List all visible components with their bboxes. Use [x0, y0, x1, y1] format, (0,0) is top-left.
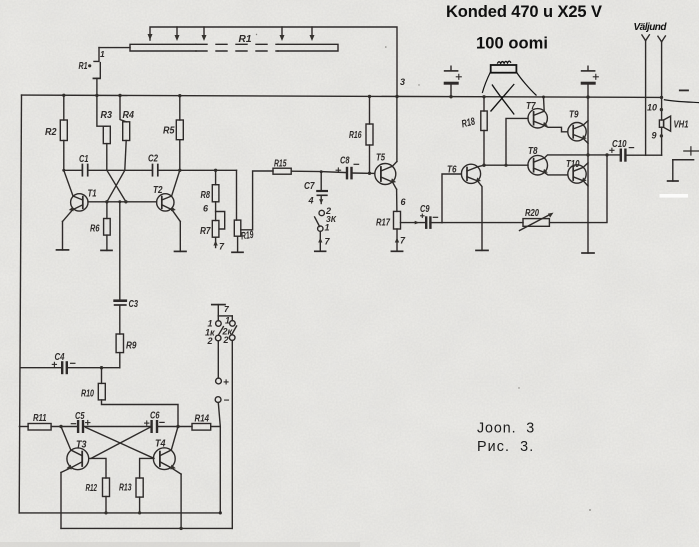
wire T4 base to R13 — [140, 458, 154, 478]
ground tick T2 emitter — [175, 250, 187, 252]
svg-text:R8: R8 — [201, 189, 211, 201]
svg-text:1: 1 — [225, 316, 230, 326]
svg-text:C2: C2 — [148, 153, 158, 165]
bottom rail 1 — [19, 512, 220, 514]
wire T10 collector to output node — [583, 163, 588, 167]
resistor R4 — [120, 96, 130, 171]
svg-text:R4: R4 — [123, 109, 135, 121]
output terminal right prong — [658, 36, 666, 155]
wire T7 emitter to T9 base — [544, 125, 568, 131]
capacitor C5 — [71, 420, 151, 431]
wire T8 emitter to T10 base — [544, 172, 568, 175]
svg-text:R10: R10 — [81, 388, 94, 400]
white-out correction mark — [660, 194, 689, 198]
bottom rail 2 (emitters) — [61, 527, 232, 529]
node output rail — [586, 153, 589, 156]
node R16 bottom — [368, 172, 371, 175]
capacitor C10 — [610, 148, 662, 161]
node dots on bus — [62, 94, 663, 100]
svg-text:R13: R13 — [119, 482, 132, 494]
wire to T8 base with branch to T7 base — [484, 118, 528, 165]
wire T5 emitter to R17 — [392, 182, 397, 212]
wire T3 base to R12 — [89, 458, 106, 478]
bracket over R1 with arrows and drop to node 3 — [148, 27, 398, 96]
node T2 collector — [178, 169, 181, 172]
node R20 tap — [605, 153, 608, 156]
bottom scan smudge — [0, 542, 360, 547]
wire T7 collector to bus — [543, 97, 546, 111]
resistor R20 (feedback trimmer) — [520, 213, 554, 231]
transistor T5 — [375, 164, 396, 185]
svg-text:Joon. 3: Joon. 3 — [477, 421, 535, 437]
ground tick T1 emitter — [57, 249, 69, 251]
node T7 collector at bus — [542, 96, 545, 99]
sync line from T-bases down to C3 — [119, 202, 121, 300]
svg-text:C1: C1 — [79, 153, 89, 165]
capacitor C3 — [115, 301, 126, 334]
wire output node down to R20 — [550, 155, 607, 223]
resistor R18 — [481, 97, 487, 165]
svg-text:4: 4 — [308, 196, 314, 206]
node T4 emitter — [179, 527, 182, 530]
node B (T2 base) — [124, 200, 127, 203]
svg-text:C5: C5 — [75, 410, 85, 422]
svg-text:T2: T2 — [153, 184, 163, 196]
wire T8 collector to output node — [544, 155, 588, 158]
wire T9 emitter to output node — [583, 139, 588, 144]
switch 3K contact 1 — [318, 226, 323, 231]
svg-text:2: 2 — [223, 335, 229, 345]
connector pin 2 left — [215, 335, 221, 341]
node T3 collector — [59, 425, 62, 428]
plus mark right edge — [684, 147, 699, 155]
resistor R2 — [60, 95, 67, 170]
svg-text:R2: R2 — [45, 126, 57, 138]
svg-text:R1: R1 — [79, 60, 88, 72]
wire T2 collector to R19 — [236, 170, 238, 220]
annotation resistor 100 oomi drawing — [482, 61, 536, 95]
resistor R12 — [103, 478, 110, 513]
capacitor C7 — [317, 172, 327, 204]
wire switch to ground — [318, 232, 322, 252]
svg-text:Konded 470 u X25 V: Konded 470 u X25 V — [446, 3, 602, 21]
svg-text:R3: R3 — [101, 109, 113, 121]
multivibrator 2 supply wire — [19, 426, 28, 428]
resistor R15 — [273, 168, 347, 174]
resistor R9 — [116, 334, 123, 368]
switch on R1 (power switch) — [88, 48, 100, 96]
cross-coupling wires of second multivibrator — [86, 427, 154, 458]
loudspeaker VH1 — [659, 116, 670, 131]
svg-text:R17: R17 — [376, 217, 391, 229]
resistor R11 — [28, 424, 78, 431]
ground tick R19 — [232, 251, 243, 253]
node T1 collector — [62, 169, 65, 172]
svg-text:R6: R6 — [90, 223, 100, 235]
ground tick switch — [315, 250, 326, 252]
node R13 ground — [138, 511, 141, 514]
node R8 top — [214, 169, 217, 172]
svg-text:C4: C4 — [55, 351, 65, 363]
connector chassis bar with pin 7 — [212, 305, 233, 321]
svg-text:C3: C3 — [129, 298, 139, 310]
svg-text:R19: R19 — [240, 229, 254, 243]
node C7 tap — [320, 170, 323, 173]
wire T6 emitter to ground — [478, 181, 483, 251]
transistor T10 — [568, 165, 587, 183]
svg-text:C6: C6 — [150, 410, 160, 422]
electrolytic capacitor on bus (right 470u) — [582, 66, 599, 97]
svg-text:C9: C9 — [420, 203, 430, 215]
node 10 — [660, 108, 663, 111]
node 9 — [660, 134, 663, 137]
svg-text:2: 2 — [207, 336, 213, 346]
ground tick T6 — [476, 249, 488, 251]
resistor R10 — [98, 368, 178, 427]
wire pin2R down to emitter rail — [231, 340, 233, 528]
svg-text:Рис. 3.: Рис. 3. — [477, 439, 534, 455]
svg-text:C7: C7 — [304, 180, 315, 192]
chassis earth symbol right — [668, 160, 694, 181]
resistor R8 — [212, 170, 219, 220]
transistor T2 — [157, 170, 181, 251]
output terminal left prong — [642, 35, 650, 155]
rail from bus down through output to ground — [587, 97, 589, 253]
resistor R16 — [366, 96, 373, 173]
resistor R5 — [176, 96, 183, 171]
capacitor C2 — [88, 165, 237, 176]
node sync tap — [118, 200, 121, 203]
cross-coupling wires of first multivibrator — [88, 170, 157, 202]
wire T10 emitter to ground rail — [583, 181, 588, 186]
ground tick T10 emitter — [582, 252, 594, 254]
svg-text:T7: T7 — [526, 100, 536, 112]
svg-text:100 oomi: 100 oomi — [476, 35, 548, 53]
svg-text:R7: R7 — [200, 225, 211, 237]
svg-text:R5: R5 — [163, 125, 175, 137]
minus mark near bus end — [680, 89, 688, 91]
wire C9 to T6 base — [442, 174, 461, 223]
ground tick R17 — [391, 250, 402, 252]
capacitor C1 — [64, 165, 88, 176]
jumper 2k — [232, 326, 237, 334]
svg-text:R9: R9 — [126, 340, 137, 352]
main supply bus — [22, 95, 662, 97]
wire - terminal down to R14 rail — [218, 403, 220, 427]
electrolytic capacitor on bus (left 470u) — [445, 66, 462, 96]
left rail wire — [19, 95, 21, 513]
svg-text:R16: R16 — [349, 129, 362, 141]
resistor R13 — [136, 478, 143, 513]
capacitor C8 — [336, 164, 375, 178]
svg-text:T10: T10 — [566, 158, 580, 170]
svg-text:R20: R20 — [525, 207, 539, 219]
connector pin 2 right — [229, 335, 235, 341]
switch 3K arm — [315, 217, 320, 227]
capacitor C4 — [21, 362, 120, 373]
svg-text:9: 9 — [652, 131, 657, 141]
resistor R7 (trimmer, wiper strapped) — [212, 212, 224, 248]
svg-text:C10: C10 — [612, 138, 627, 150]
svg-text:1: 1 — [325, 223, 330, 233]
resistor R3 — [97, 95, 110, 170]
resistor R14 — [192, 424, 220, 513]
connector pin 1 right — [230, 321, 236, 327]
transistor T6 — [461, 164, 481, 183]
wire T6 collector to R18 node — [478, 165, 485, 167]
svg-text:Väljund: Väljund — [634, 22, 668, 33]
transistor T8 — [528, 155, 548, 175]
capacitor C6 — [145, 421, 192, 432]
jumper 1k — [219, 327, 224, 335]
svg-text:VH1: VH1 — [674, 119, 689, 131]
svg-text:R1: R1 — [239, 33, 252, 45]
terminal + — [216, 378, 222, 384]
transistor T7 — [528, 109, 548, 128]
svg-text:R12: R12 — [86, 482, 98, 494]
wire from R1 wiper to body — [99, 47, 130, 49]
terminal - — [215, 397, 221, 403]
svg-text:T3: T3 — [76, 439, 87, 451]
svg-text:R14: R14 — [195, 413, 210, 425]
wire T5 collector to bus/bracket — [392, 162, 397, 167]
annotation stroke near output — [664, 100, 699, 103]
svg-text:C8: C8 — [340, 155, 350, 167]
svg-text:10: 10 — [647, 103, 657, 113]
node A (T1 base) — [105, 200, 108, 203]
svg-text:T5: T5 — [376, 152, 385, 164]
svg-text:1: 1 — [100, 49, 105, 59]
transistor T1 — [63, 170, 89, 250]
wire T9 collector to bus — [583, 121, 588, 125]
svg-text:T9: T9 — [569, 109, 579, 121]
svg-text:T6: T6 — [447, 164, 457, 176]
transistor T9 — [568, 123, 587, 141]
wire R20 to T6 base node — [442, 222, 523, 224]
node R12 ground — [104, 511, 107, 514]
transistor T3 — [61, 427, 89, 529]
wire pin2L to + terminal — [217, 341, 219, 378]
node R10 top — [100, 366, 103, 369]
node T6 collector / driver bases — [482, 164, 485, 167]
capacitor C9 — [401, 214, 443, 228]
svg-text:−: − — [224, 396, 230, 407]
switch 3K contact 2 — [319, 210, 324, 215]
resistor R6 — [104, 202, 111, 251]
node T7 base branch — [504, 164, 507, 167]
resistor R17 — [394, 211, 401, 251]
svg-text:R11: R11 — [33, 412, 47, 424]
svg-text:R15: R15 — [274, 158, 287, 170]
resistor R1 (long mains dropper, dashed middle) — [130, 44, 338, 51]
svg-text:T4: T4 — [155, 438, 166, 450]
output node wire to C10 — [588, 154, 620, 156]
svg-text:+: + — [223, 378, 229, 389]
svg-text:T1: T1 — [88, 188, 97, 200]
svg-text:T8: T8 — [528, 145, 538, 157]
scan specks — [256, 34, 591, 511]
node T4 collector / R10 feed — [176, 425, 179, 428]
resistor R19 (trimmer) — [234, 171, 273, 252]
transistor T4 — [153, 427, 181, 529]
node R14 rail ground — [219, 511, 222, 514]
connector pin 1 left — [216, 321, 222, 327]
ground tick R6 — [101, 249, 112, 251]
svg-text:3: 3 — [400, 77, 405, 87]
annotation cross-out X on bus — [491, 84, 515, 115]
